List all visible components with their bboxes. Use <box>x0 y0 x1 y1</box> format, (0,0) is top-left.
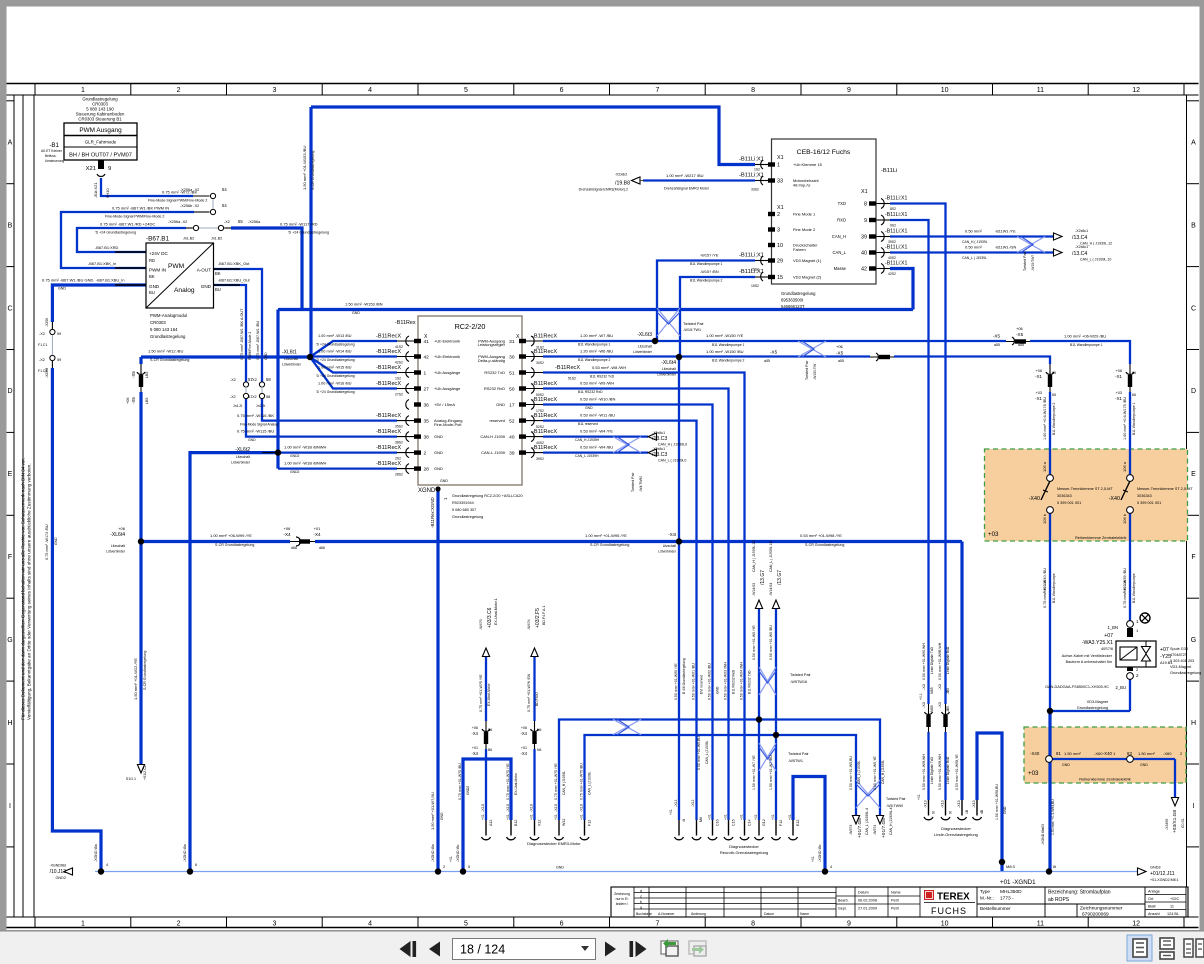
svg-text:Petri: Petri <box>891 899 899 903</box>
svg-text:D: D <box>7 388 12 395</box>
svg-text:39S2: 39S2 <box>536 457 544 461</box>
svg-text:1.50 mm² -W153 /BN: 1.50 mm² -W153 /BN <box>345 302 383 307</box>
svg-text:-B11Li:X1: -B11Li:X1 <box>885 261 908 267</box>
svg-text:0.75 mm² -W174 /BU: 0.75 mm² -W174 /BU <box>45 524 49 560</box>
svg-text:-XGND t8a: -XGND t8a <box>1041 828 1045 845</box>
svg-text:Linde Digitale TxD: Linde Digitale TxD <box>930 647 934 674</box>
svg-text:A-Nummer: A-Nummer <box>658 912 675 916</box>
svg-text:3036343: 3036343 <box>1057 494 1072 498</box>
svg-text:-X13: -X13 <box>924 800 928 808</box>
RC2 right pin 30 square <box>519 354 526 358</box>
junction -XL6t4 <box>676 354 682 360</box>
svg-text:E: E <box>1191 471 1196 478</box>
svg-text:0.53 mm² +01-W98 /YE: 0.53 mm² +01-W98 /YE <box>800 533 842 538</box>
svg-text:B 4/6 Grundlastregelung: B 4/6 Grundlastregelung <box>682 658 686 694</box>
CEB right pin 39 square <box>869 234 876 238</box>
svg-text:Twisted Pair: Twisted Pair <box>886 797 906 801</box>
svg-text:B11 Wandlerpumpe 1: B11 Wandlerpumpe 1 <box>690 262 723 266</box>
link 57 <box>245 387 247 394</box>
connector -X13 pin <box>945 800 947 816</box>
column ruler ticks <box>34 84 36 96</box>
junction gnd x101 <box>98 868 104 874</box>
svg-text:-X40: -X40 <box>1029 496 1040 502</box>
valve -Y25 outline <box>1116 641 1156 667</box>
svg-text:4B: 4B <box>980 809 984 814</box>
svg-text:10: 10 <box>941 921 949 928</box>
svg-text:28: 28 <box>424 466 430 472</box>
RC2 left pin 36 square <box>414 402 421 406</box>
svg-text:-W15? /BN: -W15? /BN <box>700 270 719 274</box>
wire RC2 pin31 PWM out to XL6t3 <box>543 340 655 342</box>
CEB left pin 3 square <box>768 227 775 231</box>
svg-text:-XGND t8c: -XGND t8c <box>818 844 822 862</box>
svg-text:B: B <box>1191 222 1196 229</box>
svg-text:F1.C4: F1.C4 <box>38 369 47 373</box>
row ruler ticks <box>7 100 15 102</box>
svg-text:42S2: 42S2 <box>395 361 403 365</box>
svg-text:0.50 mm² +01-W9t,WH: 0.50 mm² +01-W9t,WH <box>922 754 926 790</box>
wire vertical from XL6t2 down to GND bus <box>190 453 277 872</box>
svg-text:B11 RS232 TxD: B11 RS232 TxD <box>590 375 615 379</box>
svg-text:-B11Li:X1: -B11Li:X1 <box>885 212 908 218</box>
svg-text:BD.F4.F.A.1: BD.F4.F.A.1 <box>542 606 546 625</box>
svg-text:Masse: Masse <box>834 266 847 271</box>
svg-text:Diagnosestecker: Diagnosestecker <box>941 826 971 831</box>
svg-text:40S7/6: 40S7/6 <box>1101 647 1113 651</box>
svg-text:29: 29 <box>777 259 783 265</box>
connector -X10 W12 <box>558 820 560 836</box>
CEB left pin 29 square <box>768 258 775 262</box>
svg-text:CAN_H: CAN_H <box>832 234 846 239</box>
svg-text:0.75 mm² -W116 /BK: 0.75 mm² -W116 /BK <box>237 413 274 418</box>
svg-text:+02C: +02C <box>1170 897 1179 901</box>
svg-text:+01: +01 <box>917 794 921 800</box>
svg-text:BH / BH OUT07 / PVM07: BH / BH OUT07 / PVM07 <box>69 153 132 159</box>
toolbar page combobox <box>453 939 596 960</box>
connector -X10 B12 <box>510 820 512 836</box>
CEB left glyph pin1 <box>761 160 763 169</box>
svg-text:Twisted Pair: Twisted Pair <box>683 322 704 326</box>
connector -X4 x486 <box>484 721 488 749</box>
svg-text:S-CR Grundlastregelung: S-CR Grundlastregelung <box>143 651 147 690</box>
connector Reuroth pin <box>775 820 777 836</box>
svg-text:CR0303 Steuerung B1: CR0303 Steuerung B1 <box>78 117 122 122</box>
CEB left pin 10 square <box>768 243 775 247</box>
svg-text:-X5: -X5 <box>131 371 136 378</box>
svg-text:BK: BK <box>149 274 155 279</box>
svg-text:'D +24 Grundlastregelung: 'D +24 Grundlastregelung <box>316 343 355 347</box>
svg-text:06.02.2008: 06.02.2008 <box>858 899 877 903</box>
wire CAN_H J1939 from /13.G7 down <box>758 607 760 820</box>
tb right rows <box>1145 894 1186 896</box>
junction y25 bottom <box>1047 708 1053 714</box>
svg-text:B11 Wandlerpumpe: B11 Wandlerpumpe <box>1132 573 1136 603</box>
wire RC2 GND17 down to Reuroth <box>543 405 713 821</box>
svg-text:M.-Nr.:: M.-Nr.: <box>980 896 994 901</box>
CEB right pin 42 square <box>869 266 876 270</box>
arrow CAN_H bottom x880 <box>876 816 883 825</box>
svg-text:-W5:TW90: -W5:TW90 <box>886 804 903 808</box>
svg-text:Analog: Analog <box>174 287 195 294</box>
wire B67 GND-OUT BU <box>214 285 247 382</box>
svg-text:0.75 mm² -W115 /BU: 0.75 mm² -W115 /BU <box>237 429 274 434</box>
connector Reuroth pin <box>792 820 794 836</box>
svg-text:-B11Li:X1: -B11Li:X1 <box>739 253 764 259</box>
wire -W12 BU horizontal to XL6t1 <box>141 355 309 358</box>
connector -X5 a55 YE <box>1006 340 1030 344</box>
CEB right pin 8 square <box>869 201 876 205</box>
toolbar back-view button <box>661 941 678 954</box>
svg-text:9t: 9t <box>932 811 936 814</box>
svg-text:I: I <box>1193 803 1195 810</box>
svg-text:B6: B6 <box>488 728 492 732</box>
svg-text:2: 2 <box>177 87 181 94</box>
svg-text:Lötverbinder: Lötverbinder <box>658 550 677 554</box>
svg-text:Twisted Pair: Twisted Pair <box>805 360 809 380</box>
svg-text:-B67.B1:XBU_In: -B67.B1:XBU_In <box>96 278 125 283</box>
svg-text:3036343: 3036343 <box>1137 494 1152 498</box>
svg-text:1: 1 <box>777 163 780 169</box>
svg-text:Diagnosestecker EMR3-Motor: Diagnosestecker EMR3-Motor <box>527 841 581 846</box>
wire orange1 left pair lower <box>1049 513 1051 711</box>
svg-text:11: 11 <box>1037 921 1044 928</box>
svg-text:PWM Ausgang: PWM Ausgang <box>79 127 122 134</box>
svg-text:-B11RecX: -B11RecX <box>376 413 401 419</box>
svg-text:-XGND t8c: -XGND t8c <box>456 844 460 862</box>
svg-text:Fine Mode 1: Fine Mode 1 <box>793 212 816 217</box>
svg-text:-B67.B1:XBK_In: -B67.B1:XBK_In <box>88 261 116 266</box>
svg-text:+07: +07 <box>1104 633 1113 639</box>
svg-text:+01: +01 <box>472 746 478 750</box>
svg-text:+01: +01 <box>481 814 485 820</box>
svg-text:54: 54 <box>222 203 227 208</box>
-B67 black stub +24VDC <box>115 251 146 253</box>
arrow /13.G7 CAN_H <box>755 600 762 609</box>
svg-text:Jn1.B2: Jn1.B2 <box>183 237 194 241</box>
svg-text:39: 39 <box>509 450 515 456</box>
svg-text:5 080 143 164: 5 080 143 164 <box>150 327 178 332</box>
svg-text:1.50 mm² +01-W7 /YE: 1.50 mm² +01-W7 /YE <box>752 755 756 790</box>
svg-text:+01: +01 <box>449 856 453 862</box>
highlight zone +03 lower <box>1024 727 1186 783</box>
svg-text:CAN-H J1939: CAN-H J1939 <box>480 434 505 439</box>
svg-text:-B11RecX: -B11RecX <box>532 349 557 355</box>
svg-text:0.75 mm² -B67.W1 /BK A.OUT: 0.75 mm² -B67.W1 /BK A.OUT <box>240 308 244 360</box>
svg-text:38S2: 38S2 <box>395 441 403 445</box>
svg-text:1S2: 1S2 <box>754 168 760 172</box>
svg-text:CR0303: CR0303 <box>150 320 166 325</box>
svg-text:NB5: NB5 <box>930 687 934 694</box>
outer frame bottom line <box>7 927 1199 929</box>
svg-text:B6: B6 <box>488 748 492 752</box>
svg-text:+01: +01 <box>811 856 815 862</box>
svg-text:0.50 mm² +01-W91 /BU: 0.50 mm² +01-W91 /BU <box>692 663 696 700</box>
svg-text:B11 Wandlerpumpe: B11 Wandlerpumpe <box>1052 573 1056 603</box>
svg-text:81: 81 <box>1056 751 1061 756</box>
svg-text:-X10: -X10 <box>554 804 558 812</box>
svg-text:Fine-Mode-Signal PWM/Fine-Mode: Fine-Mode-Signal PWM/Fine-Mode 2 <box>148 199 207 203</box>
connector Reuroth pin <box>744 820 746 836</box>
svg-text:+06: +06 <box>118 526 126 531</box>
wire -W150 YE to right area <box>655 341 1130 375</box>
svg-text:F: F <box>8 554 12 561</box>
svg-text:51S2: 51S2 <box>568 377 576 381</box>
svg-text:PWM-Analogmodul: PWM-Analogmodul <box>150 313 187 318</box>
svg-text:a55: a55 <box>994 343 1000 347</box>
svg-text:-XL6t4: -XL6t4 <box>110 532 125 538</box>
svg-text:7: 7 <box>655 921 659 928</box>
wire CEB pin15 wire via x680 <box>680 277 755 357</box>
svg-text:Linde Digitale TxD: Linde Digitale TxD <box>930 757 934 784</box>
svg-text:+06: +06 <box>1116 369 1122 373</box>
svg-text:-B11RecX: -B11RecX <box>532 445 557 451</box>
svg-text:C15: C15 <box>732 819 736 826</box>
svg-text:12: 12 <box>1132 87 1140 94</box>
svg-text:35: 35 <box>424 418 430 424</box>
svg-text:0.75 mm² -B67.W1 /RD +24D: 0.75 mm² -B67.W1 /RD +24DC <box>100 222 155 227</box>
arrow /13.C3 CAN_L <box>648 449 657 456</box>
svg-text:17: 17 <box>509 402 515 408</box>
Y25 pin square top <box>1127 628 1133 637</box>
svg-text:-X256b -X2: -X256b -X2 <box>180 204 199 208</box>
svg-text:RD: RD <box>149 258 155 263</box>
svg-text:-X13: -X13 <box>941 800 945 808</box>
svg-text:28S2: 28S2 <box>395 473 403 477</box>
toolbar next button <box>605 942 616 957</box>
socket -X2:55b <box>218 225 223 230</box>
svg-text:-X4t: -X4t <box>668 532 677 537</box>
svg-text:-X2x8c1: -X2x8c1 <box>1075 229 1088 233</box>
junction CAN_H x759 <box>756 716 762 722</box>
arrow /13.G7 CAN_L <box>772 600 779 609</box>
svg-text:N6: N6 <box>537 748 541 752</box>
inner frame bottom line <box>7 916 1199 918</box>
knife switch -X40 106a <box>1121 481 1130 500</box>
arrow /13.C3 CAN_H <box>648 433 657 440</box>
svg-text:a: a <box>640 905 642 909</box>
svg-text:2: 2 <box>777 212 780 218</box>
twisted pair W150 <box>798 341 826 357</box>
svg-text:+24V DC: +24V DC <box>149 251 168 256</box>
connector -X13 pin <box>976 800 978 816</box>
svg-text:Grundlastregelung: Grundlastregelung <box>452 515 483 519</box>
tb horizontal 904 <box>977 903 1145 905</box>
svg-text:-B11Li:X1: -B11Li:X1 <box>739 157 764 163</box>
svg-text:b: b <box>640 900 642 904</box>
svg-text:8: 8 <box>751 921 755 928</box>
svg-text:31: 31 <box>509 339 515 345</box>
socket -X2:54a <box>210 193 215 198</box>
connector Reuroth pin <box>728 820 730 836</box>
svg-text:X1: X1 <box>777 155 784 161</box>
svg-text:W12: W12 <box>562 819 566 826</box>
svg-text:A12: A12 <box>489 820 493 826</box>
svg-text:CAN_L ( J1939L.1B: CAN_L ( J1939L.1B <box>769 540 773 572</box>
svg-text:-X1: -X1 <box>1035 396 1042 401</box>
svg-text:C: C <box>7 305 12 312</box>
black link 54a <box>193 195 210 197</box>
svg-text:nur in E³: nur in E³ <box>616 897 630 901</box>
svg-text:0.53 mm² -W4 /BU: 0.53 mm² -W4 /BU <box>580 445 613 450</box>
svg-text:B11 RS232 RxD: B11 RS232 RxD <box>732 669 736 694</box>
svg-text:B11 Wandlerpumpe 2: B11 Wandlerpumpe 2 <box>690 279 723 283</box>
svg-text:-X3: -X3 <box>938 684 942 690</box>
svg-text:-X4: -X4 <box>520 731 527 736</box>
socket -X2:58b <box>259 393 264 398</box>
tb vertical 1145 <box>1144 887 1146 917</box>
wire CEB CAN_L to /13.C4 <box>890 251 1058 253</box>
svg-text:Gepr.: Gepr. <box>838 907 847 911</box>
wire CEB CAN_H to /13.C4 <box>890 235 1058 237</box>
CEB left pin 2 square <box>768 212 775 216</box>
svg-text:3: 3 <box>777 228 780 234</box>
svg-text:1.50 mm² +01-W153 /BU: 1.50 mm² +01-W153 /BU <box>302 146 307 190</box>
wire orange2 right down to arrow <box>1174 759 1176 799</box>
svg-text:5 399 001 001: 5 399 001 001 <box>1137 501 1161 505</box>
socket -X2:58a <box>259 382 264 387</box>
wire CEB TXD below connector <box>944 731 946 800</box>
svg-text:Fine-Mode-Poti: Fine-Mode-Poti <box>434 422 461 427</box>
svg-text:Litzschalt: Litzschalt <box>663 544 676 548</box>
drawing frame outer top line <box>7 83 1199 85</box>
svg-text:CAN_L: CAN_L <box>833 250 847 255</box>
svg-text:Type: Type <box>980 889 990 894</box>
svg-text:G12: G12 <box>762 819 766 826</box>
wire XL6t4 vertical to -X11 connector <box>678 357 680 820</box>
svg-text:a55: a55 <box>838 359 844 363</box>
svg-text:NB5: NB5 <box>930 705 934 712</box>
svg-text:Lötverbinder: Lötverbinder <box>231 461 251 465</box>
svg-text:65: 65 <box>1052 371 1056 375</box>
svg-text:GND: GND <box>149 284 160 289</box>
svg-text:6790200069: 6790200069 <box>1082 912 1109 918</box>
connector -X11 pin <box>696 820 698 836</box>
wire RC2 CAN-H to /13.C3 arrow <box>543 435 648 437</box>
svg-text:+01: +01 <box>724 814 728 820</box>
connector -X4 x534 <box>533 721 537 749</box>
svg-text:0.75 mm² -B67.W1 /BU GND: 0.75 mm² -B67.W1 /BU GND <box>42 278 93 283</box>
wire -W117 +24V feed right <box>231 228 302 310</box>
svg-text:GND: GND <box>556 866 564 870</box>
connector -X10 F12 <box>584 820 586 836</box>
wire -X5 vertical feed down to arrow <box>139 357 142 766</box>
connector -X10 X12 <box>534 820 536 836</box>
svg-text:33: 33 <box>777 179 783 185</box>
svg-text:S-CR Grundlastregelung: S-CR Grundlastregelung <box>311 151 315 190</box>
svg-text:9t: 9t <box>949 811 953 814</box>
twisted pair W5 right <box>856 780 880 808</box>
wire staple to GND bus left <box>463 759 511 872</box>
svg-text:-X2: -X2 <box>224 220 230 224</box>
svg-text:54: 54 <box>222 187 227 192</box>
svg-text:0.75 mm² +01-W?6 /GN: 0.75 mm² +01-W?6 /GN <box>527 673 531 712</box>
svg-text:-X3: -X3 <box>938 702 942 708</box>
svg-text:-X256a: -X256a <box>248 220 261 224</box>
svg-text:0.50 mm² +01-W5 /BU: 0.50 mm² +01-W5 /BU <box>769 625 773 660</box>
svg-text:1.00 mm² -W217 /BU: 1.00 mm² -W217 /BU <box>666 173 704 178</box>
wire RC2 CAN-L to /13.C3 arrow <box>543 451 648 453</box>
svg-text:+01/12.J11: +01/12.J11 <box>1150 871 1175 877</box>
svg-text:+Ub Klemme 15: +Ub Klemme 15 <box>793 162 823 167</box>
svg-text:1S2: 1S2 <box>395 377 401 381</box>
svg-text:/13.C4: /13.C4 <box>1072 251 1087 257</box>
wire XGND wire from RC2 down to GND bus <box>436 489 439 872</box>
wire orange2 horizontal <box>1049 758 1175 760</box>
svg-text:1.20 mm² -W7 /BU: 1.20 mm² -W7 /BU <box>580 333 613 338</box>
svg-text:12: 12 <box>1132 921 1140 928</box>
svg-text:0.50 mm² +01-W5,BU: 0.50 mm² +01-W5,BU <box>697 736 701 770</box>
svg-text:+06: +06 <box>1036 369 1042 373</box>
svg-text:0.53 mm² +01-W98,YE: 0.53 mm² +01-W98,YE <box>955 754 959 790</box>
wire CEB RXD below connector <box>927 731 929 800</box>
svg-text:-W4?3: -W4?3 <box>479 619 483 630</box>
svg-text:6: 6 <box>560 87 564 94</box>
svg-text:-B11Rex: -B11Rex <box>395 320 416 326</box>
svg-text:-B11RecX: -B11RecX <box>532 413 557 419</box>
svg-text:65: 65 <box>1052 393 1056 397</box>
svg-text:0.50 mm²: 0.50 mm² <box>965 245 983 250</box>
svg-text:0.75 mm² -B67.W1 /BK PWM: 0.75 mm² -B67.W1 /BK PWM IN <box>112 206 169 211</box>
svg-text:58: 58 <box>266 377 271 382</box>
svg-text:0.53 mm² -W10 /BN: 0.53 mm² -W10 /BN <box>580 397 615 402</box>
connector -X10 A12 <box>485 820 487 836</box>
svg-text:-B67.B1:XBU_Out: -B67.B1:XBU_Out <box>218 278 250 283</box>
svg-text:2: 2 <box>177 921 181 928</box>
svg-text:40: 40 <box>509 434 515 440</box>
wire CEB pin33 wire from /19.B8 <box>643 179 755 181</box>
svg-text:1.00 mm² -W14 /BU: 1.00 mm² -W14 /BU <box>318 350 352 354</box>
svg-text:-B11RecX: -B11RecX <box>376 445 401 451</box>
svg-text:d66: d66 <box>319 546 325 550</box>
svg-text:'D +24 Grundlastregelung: 'D +24 Grundlastregelung <box>316 374 355 378</box>
toolbar first-page button <box>400 941 411 957</box>
connector -X4 d66 <box>290 540 315 544</box>
svg-text:38: 38 <box>424 434 430 440</box>
connector Reuroth pin <box>758 820 760 836</box>
svg-text:'D +24 Grundlastregelung: 'D +24 Grundlastregelung <box>95 231 136 235</box>
svg-text:Messer-Trennklemme ST 2,5-MT: Messer-Trennklemme ST 2,5-MT <box>1057 487 1113 491</box>
svg-text:15S2: 15S2 <box>751 284 759 288</box>
svg-text:GND: GND <box>434 434 443 439</box>
svg-text:0.53 mm² -W8 /WH: 0.53 mm² -W8 /WH <box>592 365 626 370</box>
svg-text:-X10: -X10 <box>530 804 534 812</box>
svg-text:CAN_H (J1939L.4: CAN_H (J1939L.4 <box>889 807 893 835</box>
svg-text:1.00 mm² -W150 /BU: 1.00 mm² -W150 /BU <box>706 349 744 354</box>
wire bus right end down to Linde <box>960 542 963 801</box>
svg-text:/13.C3: /13.C3 <box>652 452 667 458</box>
svg-text:105 a: 105 a <box>1042 461 1047 472</box>
RC2 left pin 27 square <box>414 386 421 390</box>
svg-text:A: A <box>1191 140 1196 147</box>
svg-text:-B11Li:X1: -B11Li:X1 <box>739 173 764 179</box>
svg-text:-B11RecX: -B11RecX <box>376 381 401 387</box>
svg-text:+Ub Elektronik: +Ub Elektronik <box>434 339 460 344</box>
svg-text:0.50 mm² +01-W9t,WH: 0.50 mm² +01-W9t,WH <box>938 754 942 790</box>
wire CEB pin29 wire via x657 <box>657 261 755 342</box>
svg-text:1773 -: 1773 - <box>1000 896 1014 902</box>
svg-text:0.53 mm² -W4 /YE: 0.53 mm² -W4 /YE <box>580 429 613 434</box>
connector X21:9 pin <box>98 160 104 169</box>
svg-text:39: 39 <box>861 235 867 241</box>
svg-text:+01: +01 <box>580 814 584 820</box>
svg-text:+03: +03 <box>988 531 999 538</box>
wire CEB TXD wire down <box>890 204 946 706</box>
svg-text:Reuroth-Grenzlastregelung: Reuroth-Grenzlastregelung <box>720 850 768 855</box>
wire GND left long vertical <box>52 368 101 872</box>
svg-text:Reihenklemme Zentralelektrik: Reihenklemme Zentralelektrik <box>1075 535 1127 540</box>
valve -Y25 relief symbol <box>1142 647 1151 662</box>
svg-text:CAN_L ( J1939L: CAN_L ( J1939L <box>962 256 987 260</box>
